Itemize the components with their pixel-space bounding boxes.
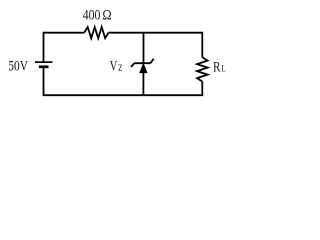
svg-text:V: V	[110, 58, 118, 74]
resistor R1 400ohm zigzag	[84, 27, 108, 38]
wire top-right segment	[108, 33, 202, 58]
zener bar right tick	[150, 59, 153, 63]
wire zener top	[143, 33, 145, 64]
zener bar left tick	[131, 63, 134, 67]
wire zener bottom	[142, 73, 144, 95]
zener diode D1 cathode bar	[134, 62, 150, 64]
zener diode D1 triangle	[140, 63, 148, 72]
svg-text:Ω: Ω	[102, 7, 111, 23]
resistor RL zigzag	[197, 57, 208, 81]
svg-text:R: R	[213, 60, 221, 76]
battery V1 short plate	[39, 65, 49, 68]
battery V1 long plate	[35, 61, 52, 63]
svg-text:400: 400	[83, 7, 101, 23]
svg-text:50V: 50V	[8, 59, 28, 75]
wire left-bottom segment	[44, 67, 144, 95]
wire bottom-right segment	[143, 82, 202, 96]
wire top-left segment	[44, 33, 85, 63]
svg-text:Z: Z	[118, 64, 123, 74]
svg-text:L: L	[222, 65, 226, 75]
